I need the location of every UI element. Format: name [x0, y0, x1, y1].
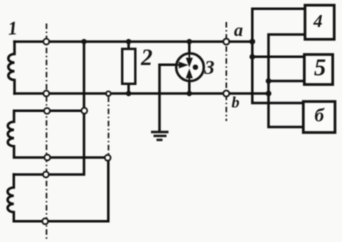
svg-text:2: 2	[140, 45, 153, 70]
svg-text:5: 5	[314, 56, 326, 82]
svg-text:3: 3	[204, 57, 215, 79]
svg-text:b: b	[232, 95, 240, 112]
svg-text:б: б	[315, 106, 326, 127]
svg-text:a: a	[234, 20, 243, 40]
svg-text:4: 4	[313, 11, 323, 31]
svg-text:1: 1	[7, 18, 18, 40]
